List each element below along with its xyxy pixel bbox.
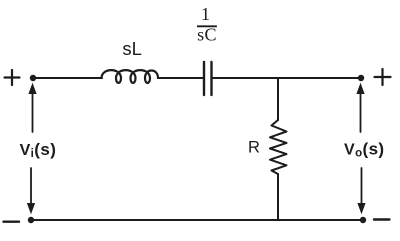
svg-text:sL: sL [122,38,142,59]
svg-text:sC: sC [197,25,217,45]
svg-text:Vi(s): Vi(s) [20,140,57,160]
svg-text:R: R [248,139,260,157]
svg-text:1: 1 [201,4,210,24]
svg-text:Vo(s): Vo(s) [344,140,385,160]
